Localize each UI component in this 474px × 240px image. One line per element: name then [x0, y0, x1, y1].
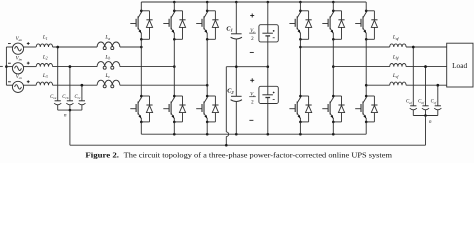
node n (input filter) [58, 109, 82, 119]
wire phase c to load [406, 84, 447, 87]
wire phase a to rectifier [120, 46, 143, 49]
label Vc/2 (lower) [249, 78, 256, 120]
wire rectifier leg c mid [206, 85, 208, 96]
wire inverter leg a mid [299, 46, 302, 96]
wire battery 2 bottom lead [267, 104, 269, 135]
wire battery to midpoint [267, 42, 269, 67]
load [447, 43, 473, 87]
wire rectifier leg a mid [140, 47, 142, 96]
wire rectifier leg b stub [173, 2, 175, 67]
battery B1 (upper) [259, 25, 278, 42]
capacitor C2 [227, 67, 242, 135]
inductor L1 [36, 35, 52, 47]
svg-text:Van: Van [16, 37, 23, 42]
wire DC- rail [141, 133, 366, 136]
inductor L2 [36, 54, 52, 66]
wire phase c to rectifier [120, 84, 209, 87]
battery B2 (lower) [259, 86, 278, 103]
wire n to neutral [69, 110, 71, 145]
transistor Q1 (top, rectifier leg a) [130, 10, 152, 41]
wire inverter leg a bottom [299, 122, 301, 134]
wire inverter leg b stub [332, 2, 334, 67]
transistor Q4 (bottom, rectifier leg a) [130, 95, 152, 124]
inductor Lb [97, 54, 120, 69]
svg-text:Crb: Crb [62, 95, 69, 100]
wire phase b mid [53, 65, 98, 68]
wire inverter leg c bottom [365, 122, 367, 134]
capacitor Crb [62, 65, 73, 110]
node n (output filter) [413, 114, 438, 125]
wire battery top lead [267, 2, 269, 25]
wire phase b to rectifier [120, 65, 176, 68]
capacitor Ccf [431, 84, 442, 116]
wire inverter phase c out [366, 84, 390, 86]
transistor Q6 (bottom, rectifier leg c) [196, 95, 218, 124]
transistor Q2 (top, rectifier leg b) [163, 10, 185, 41]
wire inverter phase a out [300, 46, 389, 48]
wire inverter leg c stub [365, 2, 367, 85]
wire rectifier leg a stub [140, 2, 142, 47]
inductor Lc [97, 73, 120, 88]
wire rectifier leg a bottom [140, 122, 142, 134]
capacitor Caf [406, 46, 417, 116]
source Vcn [6, 75, 36, 93]
capacitor C1 [226, 2, 242, 67]
capacitor Cbf [418, 65, 429, 115]
capacitor Cra [50, 46, 61, 110]
transistor Q11 (bottom, inverter leg b) [322, 95, 344, 124]
label Vc/2 (upper) [249, 14, 256, 53]
svg-text:Crc: Crc [74, 95, 80, 100]
inductor L3 [36, 73, 52, 85]
wire rectifier leg b mid [173, 67, 175, 96]
wire neutral [70, 144, 426, 147]
node N (source neutral bus) [0, 47, 8, 85]
wire DC+ rail [141, 1, 366, 4]
transistor Q12 (bottom, inverter leg c) [355, 95, 377, 124]
wire rectifier leg c stub [206, 2, 208, 85]
inductor Lcf [390, 73, 406, 85]
svg-text:Vcn: Vcn [16, 75, 23, 80]
wire midpoint to battery 2 [267, 67, 269, 87]
inductor Laf [390, 35, 406, 47]
wire output n to neutral [425, 116, 427, 146]
caption [85, 151, 392, 159]
transistor Q8 (top, inverter leg b) [322, 10, 344, 41]
capacitor Crc [74, 84, 85, 110]
wire rectifier leg c bottom [206, 122, 208, 134]
wire phase a to load [406, 46, 447, 49]
wire phase a mid [53, 46, 98, 49]
wire midpoint to neutral (hop over DC- rail) [226, 67, 228, 146]
wire inverter phase b out [333, 66, 389, 68]
transistor Q7 (top, inverter leg a) [289, 10, 311, 41]
svg-text:Vbn: Vbn [16, 56, 23, 61]
source Vbn [6, 56, 36, 74]
inductor Lbf [390, 54, 406, 66]
wire phase b to load [406, 65, 447, 68]
wire inverter leg b mid [332, 65, 335, 96]
transistor Q10 (bottom, inverter leg a) [289, 95, 311, 124]
svg-text:Figure 2.The circuit topology: Figure 2.The circuit topology of a three… [85, 151, 392, 159]
wire DC midpoint [226, 65, 269, 68]
source Van [6, 37, 36, 55]
transistor Q5 (bottom, rectifier leg b) [163, 95, 185, 124]
svg-text:Cra: Cra [50, 95, 57, 100]
transistor Q9 (top, inverter leg c) [355, 10, 377, 41]
wire rectifier leg b bottom [173, 122, 175, 134]
wire inverter leg a stub [299, 2, 301, 47]
inductor La [97, 35, 120, 50]
svg-text:Load: Load [452, 61, 467, 70]
wire inverter leg b bottom [332, 122, 334, 134]
wire inverter leg c mid [365, 84, 368, 96]
transistor Q3 (top, rectifier leg c) [196, 10, 218, 41]
wire phase c mid [53, 84, 98, 87]
